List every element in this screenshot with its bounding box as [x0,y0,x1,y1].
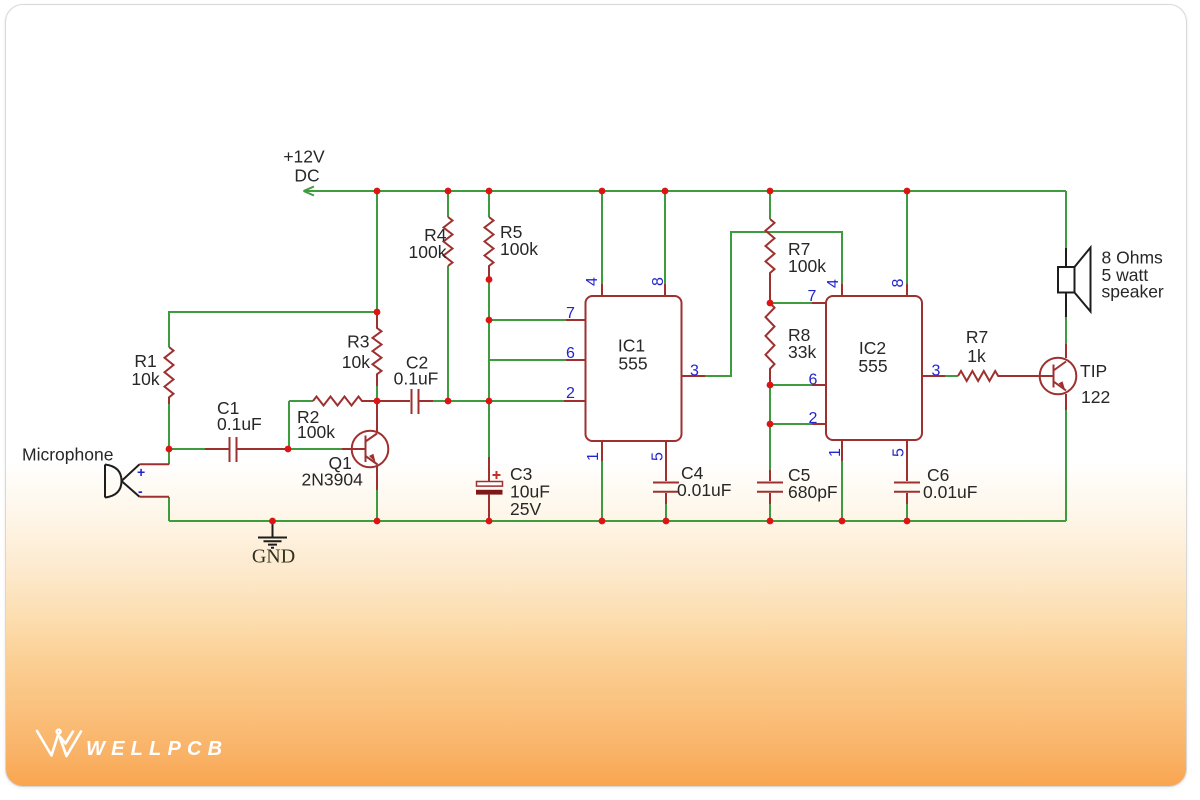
node Q1 collector [374,398,381,405]
svg-text:10k: 10k [342,352,370,372]
wire rail to IC2 pin8 [906,191,908,284]
label C6 value [923,465,977,502]
resistor R3 10k [373,313,382,386]
svg-text:100k: 100k [788,256,826,276]
label Q1 value [302,453,364,490]
wire R5 column down through pin7/pin6 nodes [488,280,490,458]
node mic/C1 [166,446,173,453]
wire TIP122 emitter to ground rail [1065,410,1067,521]
svg-text:7: 7 [566,305,575,322]
svg-text:R3: R3 [347,332,369,352]
svg-text:0.1uF: 0.1uF [217,414,262,434]
capacitor C3 10uF electrolytic [476,457,503,521]
svg-text:TIP: TIP [1080,361,1107,381]
node R8/pin6 IC2 [767,382,774,389]
speaker LS1 8 ohm [1058,248,1091,318]
svg-text:8: 8 [650,277,667,286]
capacitor C1 0.1uF [205,437,288,462]
svg-text:WELLPCB: WELLPCB [86,738,228,760]
ground symbol GND [258,523,287,548]
wire R1 top to R3 top (y=312) [169,312,377,347]
resistor R8 33k [766,303,775,385]
wire speaker to TIP122 collector [1065,317,1067,344]
node R4 bottom [445,398,452,405]
wire rail to R7 top [769,191,771,219]
wire C1 to R2/base node [288,448,352,450]
svg-text:IC2: IC2 [859,338,886,358]
label R7 1k value [966,327,988,366]
wire rail to R5 [488,191,490,217]
label speaker spec [1102,248,1164,302]
svg-text:0.01uF: 0.01uF [923,482,977,502]
label R1 value [131,351,159,389]
svg-text:5: 5 [891,448,908,457]
wire +12V rail down to R3 node [376,191,378,312]
node pin2 IC2/C5 [767,421,774,428]
resistor R5 100k [485,217,494,280]
svg-text:555: 555 [858,356,887,376]
microphone symbol [105,464,169,497]
wire IC1 pin3 to IC2 pin4 [705,232,842,376]
wire top +12V rail [304,190,1066,192]
label R3 value [342,332,370,373]
wire mic top terminal to C1 node [168,449,170,465]
label C5 value [788,465,838,502]
node R7/R8/pin7 IC2 [767,300,774,307]
label C1 value [217,398,262,434]
svg-text:8: 8 [890,278,907,287]
svg-text:3: 3 [932,363,941,380]
svg-text:0.01uF: 0.01uF [677,480,731,500]
svg-text:DC: DC [294,166,319,186]
capacitor C2 0.1uF [377,389,433,414]
svg-text:10k: 10k [131,369,159,389]
label R5 value [500,222,538,259]
label C3 value [510,464,550,519]
wire C2 to pin2 of IC1 [433,400,564,402]
wire C1 node to R1 bottom [168,404,170,449]
wire right rail down to speaker [1065,191,1067,248]
capacitor C6 0.01uF [894,441,920,504]
resistor R2 100k [313,397,377,406]
node pin2 line / C3 column [486,398,493,405]
pin numbers IC1 [566,277,699,461]
svg-text:1: 1 [585,452,602,461]
label GND [252,546,295,568]
resistor R7 1k (base of TIP122) [958,371,1040,381]
label C4 value [677,463,731,500]
junction dots top rail [374,188,911,195]
resistor R7 100k (IC2 section) [766,219,775,303]
label +12V DC [283,147,325,186]
svg-text:Microphone: Microphone [22,445,113,465]
wire pin2 node to IC2 pin2 [770,423,812,425]
svg-text:100k: 100k [297,422,335,442]
svg-text:5: 5 [650,452,667,461]
svg-text:122: 122 [1081,387,1110,407]
wire R3 bottom to collector node [376,386,378,401]
svg-text:2: 2 [809,410,818,427]
wire R2 left stub [289,400,313,402]
wire C6 bottom to ground [906,504,908,521]
capacitor C4 0.01uF [653,441,679,504]
op-amp IC2 555 timer box [812,284,945,461]
pin numbers IC2 [808,278,941,457]
svg-text:R1: R1 [134,351,156,371]
svg-text:speaker: speaker [1102,282,1164,302]
svg-text:4: 4 [825,279,842,288]
resistor R4 100k [444,217,453,266]
wire IC2 pin3 to R7 1k [945,375,958,377]
wire pin2 node down to C5 [769,424,771,470]
svg-text:33k: 33k [788,342,816,362]
resistor R1 10k [165,347,174,404]
wire rail to R4 [447,191,449,217]
svg-text:+12V: +12V [283,147,325,167]
label Microphone [22,445,113,465]
svg-text:100k: 100k [500,239,538,259]
wire IC1 pin1 to ground [601,461,603,521]
label R8 value [788,325,816,362]
svg-text:25V: 25V [510,499,541,519]
svg-text:4: 4 [584,277,601,286]
wire rail to IC1 pin8 [664,191,666,284]
wire bottom ground rail [169,520,1066,522]
wire C1 line left [169,448,205,450]
label mic polarity [137,464,145,499]
label IC2 555 [858,338,887,376]
svg-text:1: 1 [827,448,844,457]
svg-text:2N3904: 2N3904 [302,470,364,490]
svg-text:7: 7 [808,288,817,305]
wire rail to IC1 pin4 [601,191,603,284]
svg-text:3: 3 [690,363,699,380]
svg-text:0.1uF: 0.1uF [394,369,439,389]
transistor Q1 2N3904 [342,401,388,521]
WellPCB logo icon [37,730,81,756]
wire R8 node down to pin2 node [769,385,771,424]
label R7 100k value [788,239,826,276]
wire mic bottom terminal to ground rail [168,497,170,521]
label C2 value [394,353,439,389]
+12V DC supply arrow [304,187,315,196]
svg-text:1k: 1k [967,346,986,366]
svg-text:-: - [138,483,143,499]
node pin7 branch [486,317,493,324]
label TIP122 [1080,361,1110,407]
svg-text:2: 2 [566,385,575,402]
svg-text:6: 6 [809,372,818,389]
svg-text:R7: R7 [966,327,988,347]
capacitor C5 680pF [757,470,783,504]
wire pin6 line of IC1 [489,359,566,361]
op-amp IC1 555 timer box [564,284,705,461]
wire R7/R8 node to IC2 pin7 [770,302,812,304]
WellPCB logo text [86,738,228,760]
svg-text:IC1: IC1 [618,336,645,356]
label IC1 555 [618,336,648,374]
label R4 value [409,225,447,262]
wire R8 node to IC2 pin6 [770,384,812,386]
wire C4 bottom to ground [665,504,667,521]
svg-text:GND: GND [252,546,295,568]
transistor Q2 TIP122 [1040,344,1077,410]
node R1/R3 top [374,309,381,316]
wire R4 bottom to pin2 line [447,266,449,401]
node R5 bottom [486,276,493,283]
svg-text:6: 6 [566,345,575,362]
svg-text:+: + [137,464,145,480]
svg-text:680pF: 680pF [788,482,838,502]
wire pin7 line of IC1 [489,319,566,321]
junction dots ground rail [269,518,910,525]
wire IC2 pin1 to ground [841,461,843,521]
wire C5 bottom to ground [769,504,771,521]
svg-text:555: 555 [618,354,647,374]
node C1/R2/base [285,446,292,453]
svg-text:100k: 100k [409,242,447,262]
label R2 value [297,407,335,442]
wire R2 left drop [288,401,290,449]
